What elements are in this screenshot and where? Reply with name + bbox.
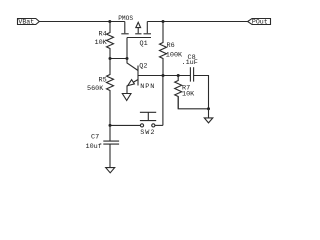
resistor R4: [107, 22, 114, 59]
junction R5/C7/SW2: [109, 124, 112, 127]
transistor Q2 NPN symbol: [127, 59, 138, 94]
svg-text:Q1: Q1: [140, 40, 148, 48]
svg-text:NPN: NPN: [140, 83, 155, 91]
svg-text:POut: POut: [252, 19, 268, 26]
svg-text:R6: R6: [167, 42, 175, 50]
wire VBat rail to Q1 source: [39, 21, 125, 23]
svg-text:560K: 560K: [87, 85, 104, 93]
junction base/R7: [177, 74, 180, 77]
wire Q2 base to C8: [138, 75, 190, 77]
ground at C7: [106, 168, 115, 173]
svg-text:SW2: SW2: [140, 129, 155, 137]
ground at R7/C8: [204, 109, 213, 123]
capacitor C7: [103, 125, 119, 167]
svg-text:C7: C7: [91, 134, 99, 142]
svg-text:100K: 100K: [166, 52, 183, 60]
wire riser SW2 to base node: [162, 76, 164, 126]
resistor R5: [107, 59, 114, 126]
switch SW2 (push button): [140, 112, 156, 127]
wire gate node: [110, 58, 127, 60]
junction R4/R5/gate: [109, 57, 112, 60]
junction gate/Q2 collector: [126, 57, 129, 60]
svg-text:VBat: VBat: [18, 19, 34, 26]
wire SW2 to riser: [155, 124, 163, 126]
wire C8 right plate to ground corner: [194, 76, 209, 109]
ground at Q2 emitter: [122, 94, 131, 101]
wire R7 bottom to ground corner: [178, 97, 208, 109]
node POut (output flag): [248, 19, 271, 26]
node VBat (power flag): [18, 19, 40, 26]
wire Q1 gate lead: [126, 38, 128, 59]
resistor R6: [160, 22, 167, 76]
junction base/R6/SW2 riser: [162, 74, 165, 77]
svg-text:10K: 10K: [182, 91, 195, 99]
transistor Q1 PMOS symbol: [121, 22, 151, 38]
wire Q1 drain to POut: [147, 21, 247, 23]
capacitor C8: [190, 67, 193, 81]
svg-text:10K: 10K: [95, 39, 108, 47]
junction R7/C8/ground: [207, 107, 210, 110]
junction drain/R6: [162, 20, 165, 23]
resistor R7: [175, 76, 182, 109]
svg-text:PMOS: PMOS: [118, 15, 133, 22]
wire R5/C7 node to SW2: [110, 124, 140, 126]
junction VBat/R4: [108, 20, 111, 23]
svg-text:R4: R4: [99, 31, 107, 39]
svg-text:.1uF: .1uF: [182, 59, 198, 67]
svg-text:R5: R5: [99, 77, 107, 85]
svg-text:10uf: 10uf: [86, 143, 102, 151]
svg-text:Q2: Q2: [139, 63, 147, 71]
